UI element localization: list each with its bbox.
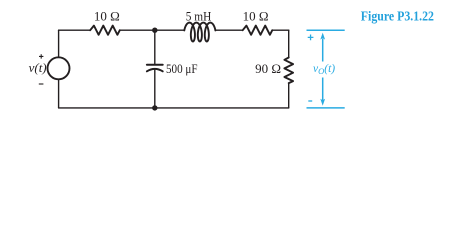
wire capacitor branch lower	[154, 70, 156, 108]
wire left vertical lower	[58, 79, 60, 108]
inductor L1 5mH	[184, 23, 215, 42]
wire top left horizontal	[59, 29, 91, 31]
resistor R2 10ohm	[243, 26, 273, 35]
wire right vertical upper	[288, 30, 290, 57]
resistor R1 10ohm	[90, 26, 120, 35]
wire inductor to R2	[215, 29, 242, 31]
vo top tick line	[307, 29, 345, 31]
vo arrow shaft lower	[322, 78, 324, 101]
source V1 circle	[48, 57, 70, 79]
wire bottom	[59, 107, 289, 109]
svg-text:Figure P3.1.22: Figure P3.1.22	[361, 9, 434, 24]
vo arrowhead up	[320, 33, 325, 40]
vo arrow shaft upper	[322, 39, 324, 62]
vo bottom tick line	[307, 107, 345, 109]
svg-text:10 Ω: 10 Ω	[94, 9, 120, 24]
wire capacitor branch upper	[154, 30, 156, 64]
svg-text:90 Ω: 90 Ω	[255, 61, 281, 76]
svg-text:5 mH: 5 mH	[186, 9, 212, 24]
junction node top	[152, 28, 157, 33]
wire top middle	[120, 29, 185, 31]
source minus sign	[39, 83, 44, 85]
vo plus sign	[308, 35, 314, 41]
capacitor C1 bottom plate curved	[147, 69, 163, 71]
svg-text:10 Ω: 10 Ω	[243, 9, 269, 24]
source plus sign	[39, 54, 43, 58]
svg-text:vO(t): vO(t)	[313, 63, 335, 76]
resistor R3 90ohm vertical	[284, 58, 293, 84]
svg-text:v(t): v(t)	[29, 60, 47, 75]
wire left vertical upper	[58, 30, 60, 57]
junction node bottom	[152, 105, 157, 110]
svg-text:500 μF: 500 μF	[166, 61, 198, 76]
vo minus sign	[308, 100, 312, 102]
vo arrowhead down	[320, 99, 325, 106]
capacitor C1 top plate	[147, 64, 163, 66]
wire top right	[272, 29, 288, 31]
wire right vertical lower	[288, 83, 290, 108]
